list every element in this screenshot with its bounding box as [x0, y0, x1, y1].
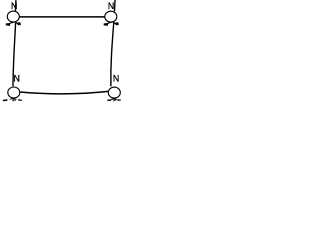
svg-text:N: N [113, 73, 119, 83]
wire: top flat edge between node 1 and node 2 [20, 16, 105, 18]
wire: right edge from node 4 up to node 2 (slight leftward bow) [111, 22, 114, 86]
wire: bottom flat edge between node 3 and node 4 (sagging) [20, 91, 108, 93]
node 2 (top-right ellipse) [105, 11, 117, 22]
wire: cropped edge entering frame top toward node 2 [114, 0, 117, 12]
node 4 (bottom-right ellipse) [108, 87, 120, 98]
wire: stub below node 4 crow [113, 99, 115, 101]
svg-text:N: N [13, 73, 19, 83]
arrowhead (crow) into bottom of node 1 [6, 22, 21, 26]
wire: cropped edge entering frame top toward node 1 [14, 0, 16, 11]
arrowhead (crow) into bottom of node 3 (cropped by frame) [3, 99, 23, 102]
arrowhead (crow) into bottom of node 2 [104, 22, 119, 26]
node 1 (top-left ellipse) [7, 11, 19, 22]
wire: stub below node 3 crow [12, 99, 14, 102]
svg-text:N: N [108, 1, 114, 11]
svg-text:N: N [11, 1, 17, 11]
arrowhead (crow) into bottom of node 4 (cropped by frame) [107, 99, 121, 101]
wire: left edge from node 3 up to node 1 (slight leftward bow) [13, 23, 16, 87]
node 3 (bottom-left ellipse) [8, 87, 20, 98]
